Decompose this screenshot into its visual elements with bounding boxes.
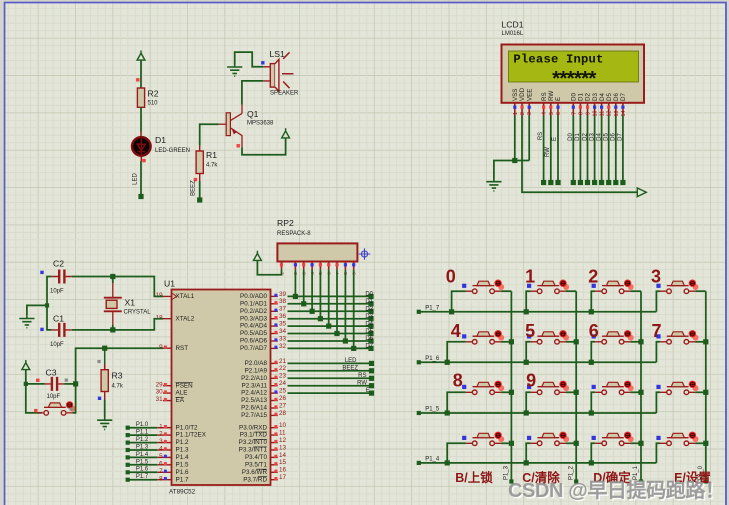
junction [24, 382, 28, 386]
svg-text:36: 36 [279, 313, 287, 320]
svg-text:P0.1/AD1: P0.1/AD1 [240, 300, 267, 307]
pin 21 P2.0/A8 [271, 362, 278, 364]
pin 14 P3.4/T0 [271, 456, 278, 458]
pin 33 P0.6/AD6 [271, 340, 278, 342]
svg-text:CSDN @早日提码跑路！: CSDN @早日提码跑路！ [508, 478, 725, 502]
push button key r4c3 [628, 436, 634, 442]
svg-text:D1: D1 [155, 135, 166, 145]
node terminal [369, 361, 374, 366]
node terminal [585, 180, 590, 185]
origin marker [359, 248, 371, 260]
svg-text:P3.2/INT0: P3.2/INT0 [239, 439, 268, 446]
pin 31 <tspan text-decoration="overline">EA</tspan> [163, 400, 172, 402]
junction [638, 390, 643, 395]
push button key r1c1 [498, 284, 504, 290]
svg-text:3: 3 [159, 438, 163, 445]
svg-text:P0.6/AD6: P0.6/AD6 [240, 338, 267, 345]
svg-text:P2.6/A14: P2.6/A14 [241, 405, 267, 412]
svg-text:P3.7/RD: P3.7/RD [243, 476, 267, 483]
svg-text:P3.3/INT1: P3.3/INT1 [239, 447, 268, 454]
pin 15 P3.5/T1 [271, 464, 278, 466]
pin 17 P3.7/<tspan text-decoration="overline">RD</tspan> [271, 479, 278, 481]
svg-text:18: 18 [156, 314, 164, 321]
marker [36, 379, 39, 382]
svg-text:RST: RST [176, 345, 189, 352]
wire key right to column [501, 391, 511, 393]
svg-text:D3: D3 [365, 314, 373, 320]
svg-text:D4: D4 [596, 133, 602, 141]
svg-text:4: 4 [542, 112, 548, 115]
junction [509, 339, 514, 344]
pin 10 P3.0/RXD [271, 427, 278, 429]
wire [288, 347, 372, 349]
svg-text:D2: D2 [582, 133, 588, 141]
wire key right to column [566, 290, 576, 292]
junction [703, 390, 708, 395]
wire [288, 377, 372, 379]
marker [70, 408, 73, 411]
svg-text:D4: D4 [365, 321, 373, 327]
wire collector to speaker [242, 81, 263, 105]
wire R3 to ground [104, 400, 106, 418]
wire +V rail down [26, 370, 42, 413]
svg-text:D7: D7 [365, 344, 373, 350]
pin 4 P1.3 [157, 449, 171, 451]
svg-text:LCD1: LCD1 [502, 20, 524, 30]
node terminal [417, 360, 421, 364]
wire key right to column [695, 341, 705, 343]
svg-text:D7: D7 [620, 93, 627, 101]
speaker sound rays [282, 52, 294, 88]
wire [288, 392, 372, 394]
svg-text:AT89C52: AT89C52 [169, 489, 196, 496]
junction [524, 460, 529, 465]
svg-text:P1.7: P1.7 [136, 474, 149, 480]
svg-text:6: 6 [159, 460, 163, 467]
svg-text:E: E [555, 97, 562, 101]
wire net LED [140, 161, 142, 197]
junction [449, 309, 454, 314]
wire LCD pin drop [587, 116, 589, 183]
pin 24 P2.3/A11 [271, 385, 278, 387]
pin 34 P0.5/AD5 [271, 333, 278, 335]
pin 26 P2.5/A13 [271, 400, 278, 402]
wire base [200, 124, 219, 145]
marker [34, 409, 37, 412]
svg-text:E: E [552, 137, 558, 141]
wire RP2 pin9 to D7 [353, 270, 355, 349]
svg-text:10: 10 [279, 422, 287, 429]
svg-text:BEEZ: BEEZ [342, 366, 358, 372]
wire VEE to ground rail [528, 116, 530, 161]
wire [288, 333, 372, 335]
svg-text:P3.6/WR: P3.6/WR [242, 469, 268, 476]
wire key right to column [695, 442, 705, 444]
svg-text:LED: LED [345, 358, 357, 364]
svg-text:1: 1 [525, 267, 535, 287]
svg-text:P0.4/AD4: P0.4/AD4 [240, 323, 267, 330]
pin 23 P2.2/A10 [271, 377, 278, 379]
svg-text:P1_3: P1_3 [504, 465, 510, 480]
svg-text:14: 14 [621, 111, 627, 117]
RP2 pin 6 [328, 262, 330, 270]
junction [445, 410, 450, 415]
LCD screen [509, 51, 639, 82]
svg-text:P1.4: P1.4 [176, 454, 189, 461]
junction [445, 460, 450, 465]
junction [574, 390, 579, 395]
svg-text:14: 14 [279, 452, 287, 459]
wire LCD pin drop [615, 116, 617, 183]
push button key r3c2 [563, 385, 569, 391]
svg-text:11: 11 [600, 111, 606, 117]
svg-text:39: 39 [279, 291, 287, 298]
svg-text:P0.7/AD7: P0.7/AD7 [240, 345, 267, 352]
junction [589, 410, 594, 415]
svg-text:D0: D0 [568, 133, 574, 141]
node terminal [620, 180, 625, 185]
wire keypad column P1.3 [510, 291, 512, 481]
svg-text:D6: D6 [365, 336, 373, 342]
marker [136, 78, 139, 81]
svg-text:13: 13 [279, 444, 287, 451]
svg-text:D7: D7 [618, 133, 624, 141]
wire [288, 303, 372, 305]
svg-text:BEEZ: BEEZ [191, 180, 197, 196]
svg-text:4: 4 [159, 446, 163, 453]
svg-text:P0.0/AD0: P0.0/AD0 [240, 293, 267, 300]
svg-text:Q1: Q1 [247, 109, 259, 119]
node terminal [368, 331, 373, 336]
svg-text:R2: R2 [148, 89, 159, 99]
svg-text:P1.3: P1.3 [176, 447, 189, 454]
wire key right to column [566, 442, 576, 444]
wire key right to column [501, 290, 511, 292]
node terminal [613, 180, 618, 185]
marker [194, 178, 197, 181]
RP2 pin 4 [311, 262, 313, 270]
wire RST net [76, 348, 163, 384]
wire [288, 325, 372, 327]
svg-text:LED-GREEN: LED-GREEN [155, 148, 190, 154]
push button key r2c3 [628, 335, 634, 341]
junction [574, 441, 579, 446]
net label P1.4 tag [128, 456, 158, 458]
svg-text:8: 8 [159, 475, 163, 482]
svg-text:R3: R3 [112, 371, 123, 381]
wire LCD pin drop [572, 116, 574, 183]
svg-text:16: 16 [279, 467, 287, 474]
svg-text:P1.1: P1.1 [136, 430, 149, 436]
svg-text:11: 11 [279, 430, 286, 437]
pin 37 P0.2/AD2 [271, 310, 278, 312]
pin 28 P2.7/A15 [271, 414, 278, 416]
svg-text:P3.4/T0: P3.4/T0 [245, 454, 268, 461]
svg-text:RESPACK-8: RESPACK-8 [277, 231, 311, 237]
ground (R3) [97, 417, 112, 429]
svg-text:D2: D2 [585, 93, 592, 101]
svg-text:RW: RW [548, 91, 555, 101]
ground (LCD) [486, 179, 501, 191]
power terminal +V (LED branch) [137, 51, 145, 61]
svg-text:P1.7: P1.7 [176, 476, 189, 483]
node terminal [417, 461, 421, 465]
marker [40, 328, 43, 331]
junction [574, 339, 579, 344]
wire keypad row P1.4 [419, 462, 657, 464]
svg-text:28: 28 [279, 410, 287, 417]
svg-text:4: 4 [451, 321, 461, 341]
svg-text:B/上锁: B/上锁 [455, 470, 493, 485]
svg-text:13: 13 [614, 111, 620, 117]
wire key left to row [656, 392, 660, 413]
pin 9 RST [163, 347, 172, 349]
svg-text:9: 9 [159, 344, 163, 351]
RP2 pin 9 [353, 262, 355, 270]
svg-text:P1.6: P1.6 [136, 467, 149, 473]
pin 39 P0.0/AD0 [271, 295, 278, 297]
svg-text:19: 19 [156, 292, 164, 299]
junction [110, 274, 115, 279]
wire key left to row [656, 443, 660, 463]
LCD LM016L body [502, 45, 645, 103]
svg-text:RP2: RP2 [277, 218, 294, 228]
svg-text:D6: D6 [613, 93, 620, 101]
RP2 pin 2 [294, 262, 296, 270]
wire LCD pin drop [579, 116, 581, 183]
pin 7 P1.6 [157, 471, 171, 473]
svg-text:PSEN: PSEN [176, 382, 194, 389]
node terminal [555, 180, 560, 185]
junction [589, 460, 594, 465]
ground (crystal) [19, 315, 34, 327]
svg-text:4.7k: 4.7k [112, 384, 124, 390]
svg-text:29: 29 [156, 381, 164, 388]
svg-text:D4: D4 [599, 93, 606, 101]
pin 1 P1.0/T2 [157, 427, 171, 429]
svg-text:P1.5: P1.5 [136, 459, 149, 465]
wire key right to column [566, 391, 576, 393]
svg-text:17: 17 [279, 474, 287, 481]
wire key left to row [526, 342, 530, 363]
junction [703, 441, 708, 446]
svg-text:1: 1 [513, 112, 519, 115]
wire C3 left [26, 383, 45, 385]
junction [512, 158, 517, 163]
svg-text:R1: R1 [206, 150, 217, 160]
svg-text:P3.0/RXD: P3.0/RXD [239, 424, 267, 431]
wire key left to row [656, 291, 660, 312]
svg-text:P1_2: P1_2 [568, 465, 574, 480]
junction [351, 346, 356, 351]
svg-text:RS: RS [538, 132, 544, 140]
pin 11 P3.1/<tspan text-decoration="overline">TXD</tspan> [271, 434, 278, 436]
svg-text:D3: D3 [589, 133, 595, 141]
svg-text:P0.5/AD5: P0.5/AD5 [240, 330, 267, 337]
push button key r3c4 [693, 385, 699, 391]
push button key r3c1 [498, 385, 504, 391]
wire key left to row [447, 443, 466, 463]
net label P1.3 tag [128, 449, 158, 451]
svg-text:P2.7/A15: P2.7/A15 [241, 412, 267, 419]
junction [445, 360, 450, 365]
svg-text:P3.5/T1: P3.5/T1 [245, 461, 268, 468]
marker [40, 271, 43, 274]
junction [589, 360, 594, 365]
svg-text:27: 27 [279, 402, 287, 409]
wire key left to row [656, 342, 660, 363]
wire caps left rail [47, 277, 52, 330]
svg-text:D2: D2 [365, 306, 373, 312]
svg-text:C2: C2 [53, 259, 64, 269]
wire key right to column [501, 442, 511, 444]
pin 25 P2.4/A12 [271, 392, 278, 394]
svg-text:2: 2 [588, 267, 598, 287]
wire RP2 pin6 to D4 [328, 270, 330, 327]
net label P1.5 tag [128, 464, 158, 466]
node terminal [574, 479, 578, 483]
svg-text:8: 8 [453, 370, 463, 390]
transistor Q1 MPS3638 [226, 113, 230, 136]
power terminal +V (Q1) [282, 128, 290, 138]
svg-text:P0.3/AD3: P0.3/AD3 [240, 315, 267, 322]
power terminal +V (reset) [22, 360, 30, 370]
wire RP2 pin3 to D1 [303, 270, 305, 304]
junction [524, 309, 529, 314]
node terminal [369, 368, 374, 373]
svg-text:1: 1 [159, 423, 163, 430]
wire key left to row [526, 291, 530, 312]
node terminal [368, 309, 373, 314]
wire LCD pin drop [557, 116, 559, 183]
svg-text:VDD: VDD [519, 87, 526, 101]
node terminal [417, 310, 421, 314]
junction [310, 309, 315, 314]
wire RP2 pin7 to D5 [336, 270, 338, 334]
svg-text:P2.0/A8: P2.0/A8 [245, 360, 268, 367]
node terminal [509, 479, 513, 483]
wire keypad row P1.7 [419, 311, 657, 313]
node terminal [368, 316, 373, 321]
wire key left to row [591, 443, 595, 463]
svg-text:6: 6 [556, 112, 562, 115]
junction [703, 339, 708, 344]
svg-text:P1.1/T2EX: P1.1/T2EX [176, 432, 207, 439]
junction [73, 381, 78, 386]
svg-text:LM016L: LM016L [502, 31, 524, 37]
svg-text:E: E [366, 388, 370, 394]
svg-text:22: 22 [279, 365, 287, 372]
svg-text:XTAL2: XTAL2 [176, 315, 195, 322]
svg-text:2: 2 [520, 112, 526, 115]
svg-text:P2.2/A10: P2.2/A10 [241, 375, 267, 382]
wire ground rail [494, 161, 529, 179]
junction [301, 301, 306, 306]
svg-text:D1: D1 [365, 299, 373, 305]
node terminal [571, 180, 576, 185]
svg-text:X1: X1 [125, 298, 136, 308]
RP2 pin 3 [303, 262, 305, 270]
svg-text:P1_5: P1_5 [425, 407, 440, 413]
wire [288, 318, 372, 320]
marker [142, 159, 145, 162]
svg-text:RW: RW [545, 147, 551, 157]
node terminal [368, 324, 373, 329]
node terminal [368, 338, 373, 343]
pin 6 P1.5 [157, 464, 171, 466]
svg-text:C1: C1 [53, 314, 64, 324]
svg-text:3: 3 [651, 267, 661, 287]
wire keypad row P1.5 [419, 412, 657, 414]
pin 38 P0.1/AD1 [271, 303, 278, 305]
svg-text:P2.3/A11: P2.3/A11 [242, 382, 268, 389]
svg-text:P1.4: P1.4 [136, 452, 149, 458]
node terminal [368, 346, 373, 351]
pin 19 XTAL1 [154, 295, 171, 297]
RP2 pin 1 [281, 262, 283, 270]
svg-text:33: 33 [279, 335, 287, 342]
svg-text:D5: D5 [365, 329, 373, 335]
net label P1.7 tag [128, 479, 158, 481]
diode D1 LED-GREEN [132, 137, 151, 156]
marker [261, 61, 264, 64]
RP2 pin 7 [336, 262, 338, 270]
svg-text:RW: RW [357, 380, 367, 386]
wire key right to column [566, 341, 576, 343]
svg-text:35: 35 [279, 321, 287, 328]
svg-text:D1: D1 [578, 93, 585, 101]
svg-text:510: 510 [148, 101, 159, 107]
wire key left to row [447, 342, 466, 363]
wire key left to row [591, 342, 595, 363]
wire key left to row [591, 392, 595, 413]
svg-text:5: 5 [159, 453, 163, 460]
svg-text:37: 37 [279, 306, 287, 313]
wire VSS to ground rail [514, 116, 516, 161]
svg-text:P1.3: P1.3 [136, 444, 149, 450]
svg-text:C3: C3 [46, 368, 57, 378]
node terminal [704, 479, 708, 483]
node terminal [369, 391, 374, 396]
wire [288, 385, 372, 387]
svg-text:RS: RS [358, 373, 366, 379]
node terminal [578, 180, 583, 185]
wire key right to column [631, 391, 641, 393]
svg-text:P0.2/AD2: P0.2/AD2 [240, 308, 267, 315]
pin 8 P1.7 [157, 479, 171, 481]
svg-text:D0: D0 [365, 292, 373, 298]
svg-text:VEE: VEE [526, 89, 533, 101]
marker [98, 397, 101, 400]
push button key r1c4 [693, 284, 699, 290]
ground (speaker) [227, 64, 242, 76]
wire crystal bottom [112, 325, 114, 330]
wire key right to column [695, 391, 705, 393]
wire C1 right to XTAL2 [72, 319, 163, 330]
wire key right to column [631, 442, 641, 444]
emitter arrow (PNP) [232, 129, 237, 135]
svg-text:P1_4: P1_4 [425, 457, 440, 463]
svg-text:SPEAKER: SPEAKER [270, 90, 299, 96]
wire key right to column [695, 290, 705, 292]
wire key left to row [526, 443, 530, 463]
svg-text:P2.4/A12: P2.4/A12 [241, 390, 267, 397]
svg-text:21: 21 [279, 358, 287, 365]
wire keypad column P1.0 [705, 291, 707, 481]
svg-text:P1.0/T2: P1.0/T2 [176, 424, 199, 431]
node terminal [548, 180, 553, 185]
junction [524, 410, 529, 415]
